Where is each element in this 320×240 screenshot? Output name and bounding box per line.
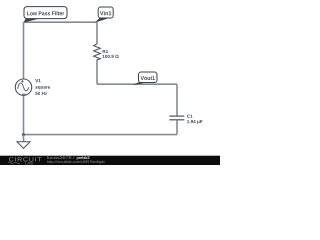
V1 value label 50 Hz — [35, 92, 47, 95]
flag box Vout1 — [139, 72, 158, 83]
flag pointer Low Pass Filter — [24, 18, 39, 23]
flag box Vin1 — [98, 7, 113, 18]
wire R1 bottom lead — [96, 60, 98, 85]
flag text Vout1 — [141, 76, 155, 80]
footer user line part 1 — [47, 156, 74, 159]
V1 sine wave — [18, 83, 29, 91]
footer url line — [47, 160, 105, 164]
footer logo LAB — [25, 162, 32, 165]
flag text Vin1 — [100, 11, 111, 15]
V1 minus sign — [22, 93, 26, 95]
capacitor C1 bottom plate — [169, 119, 184, 121]
wire R1 top lead — [96, 22, 98, 44]
capacitor C1 value label — [187, 120, 202, 124]
flag pointer Vin1 — [95, 18, 108, 23]
wire mid horizontal Vout — [97, 83, 177, 85]
voltage source V1 circle — [15, 79, 31, 95]
V1 name label — [35, 79, 40, 82]
V1 plus sign — [21, 80, 23, 82]
resistor R1 zigzag — [94, 44, 101, 60]
wire C1 top lead — [176, 84, 178, 115]
capacitor C1 top plate — [169, 115, 184, 117]
footer bar — [0, 156, 220, 165]
wire C1 bottom lead — [176, 120, 178, 134]
resistor R1 name label — [103, 50, 108, 53]
footer logo CIRCUIT — [9, 157, 41, 161]
wire bottom horizontal — [24, 134, 178, 136]
wire V1 bottom to ground node — [23, 95, 25, 134]
flag pointer Vout1 — [132, 81, 147, 85]
V1 value label square — [35, 86, 50, 89]
junction node dot — [22, 133, 25, 136]
ground lead — [23, 135, 25, 142]
footer logo squiggle — [8, 162, 20, 164]
resistor R1 value label — [103, 55, 119, 58]
footer user line part 2 — [77, 156, 90, 160]
flag box Low Pass Filter — [24, 7, 67, 19]
flag text Low Pass Filter — [27, 11, 64, 15]
wire top horizontal — [24, 21, 98, 23]
ground symbol — [17, 142, 30, 149]
capacitor C1 name label — [187, 115, 193, 118]
wire left vertical — [23, 22, 25, 79]
